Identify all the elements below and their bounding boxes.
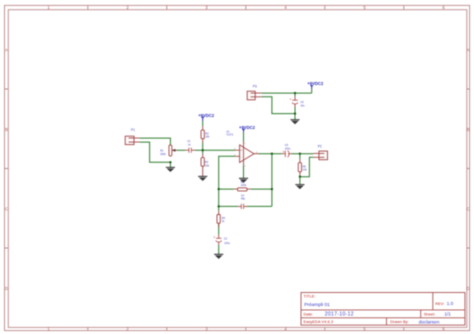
svg-text:C: C <box>5 207 8 212</box>
svg-text:2: 2 <box>234 155 235 157</box>
svg-text:+: + <box>290 98 292 102</box>
svg-text:D: D <box>467 286 470 291</box>
svg-text:+9VDC2: +9VDC2 <box>239 125 256 130</box>
svg-text:TL071: TL071 <box>226 134 234 137</box>
svg-text:+9VDC2: +9VDC2 <box>307 81 324 86</box>
svg-text:1.0: 1.0 <box>447 301 454 306</box>
svg-text:REV:: REV: <box>435 301 444 306</box>
svg-text:D: D <box>5 286 8 291</box>
svg-text:6: 6 <box>256 152 257 154</box>
svg-text:Préampli 01: Préampli 01 <box>304 302 330 308</box>
svg-text:2017-10-12: 2017-10-12 <box>325 312 354 318</box>
svg-text:C: C <box>467 207 470 212</box>
svg-text:B: B <box>5 127 8 132</box>
svg-text:Sheet:: Sheet: <box>424 311 436 316</box>
svg-text:A: A <box>467 48 470 53</box>
svg-text:+: + <box>283 150 285 154</box>
svg-text:+: + <box>240 149 242 153</box>
svg-text:EasyEDA V4.6.3: EasyEDA V4.6.3 <box>304 319 334 324</box>
svg-text:+: + <box>213 236 215 240</box>
svg-text:TITLE:: TITLE: <box>304 294 316 299</box>
svg-text:P3: P3 <box>253 85 257 89</box>
svg-text:7: 7 <box>244 143 245 145</box>
svg-text:P1: P1 <box>131 128 135 132</box>
svg-text:100u: 100u <box>224 242 230 245</box>
svg-text:A: A <box>5 48 8 53</box>
svg-text:1/1: 1/1 <box>444 312 451 317</box>
svg-text:250k: 250k <box>160 153 166 156</box>
svg-text:doclarsen: doclarsen <box>419 319 440 325</box>
svg-text:+9VDC2: +9VDC2 <box>198 113 215 118</box>
svg-text:-: - <box>241 155 242 159</box>
svg-text:B: B <box>467 127 470 132</box>
svg-text:100k: 100k <box>241 184 247 187</box>
svg-text:10u: 10u <box>300 104 305 107</box>
svg-text:45p: 45p <box>241 198 246 201</box>
svg-text:Drawn By:: Drawn By: <box>390 319 408 324</box>
svg-text:4: 4 <box>244 166 245 168</box>
svg-text:100u: 100u <box>285 147 291 150</box>
svg-text:P2: P2 <box>318 144 322 148</box>
svg-text:3: 3 <box>234 148 235 150</box>
svg-text:Date:: Date: <box>304 311 314 316</box>
